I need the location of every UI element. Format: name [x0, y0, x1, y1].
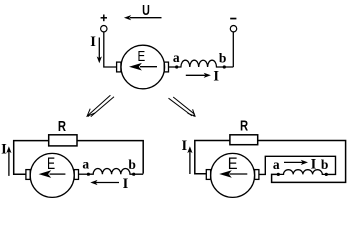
brush left M3 — [206, 170, 210, 180]
brush right M1 — [164, 62, 168, 72]
wire brush to node a — [169, 66, 177, 68]
wire top-right + bottom loop right — [258, 141, 346, 183]
svg-text:U: U — [142, 2, 150, 18]
machine M1 circle — [121, 45, 165, 89]
svg-text:I: I — [213, 69, 219, 85]
inductor L3 — [278, 170, 326, 175]
brush right M3 — [255, 170, 259, 180]
arrow I right under coil — [186, 73, 211, 78]
svg-text:E: E — [138, 47, 146, 64]
wire + to machine — [104, 32, 117, 67]
svg-text:R: R — [240, 117, 248, 134]
svg-text:a: a — [82, 156, 89, 171]
arrow E M2 (points left) — [39, 170, 66, 178]
svg-text:I: I — [181, 138, 187, 154]
arrow I up right circuit — [187, 146, 192, 174]
arrow I down — [97, 38, 102, 64]
node b top — [223, 65, 226, 68]
wire b to terminal - — [232, 32, 234, 67]
arrow E M1 (points left) — [129, 63, 157, 71]
terminal + — [101, 26, 107, 32]
arrow I up left circuit — [6, 146, 11, 176]
node b right — [325, 173, 328, 176]
derive arrow right (double line) — [169, 97, 196, 117]
svg-text:R: R — [58, 117, 66, 134]
svg-text:b: b — [321, 157, 329, 172]
machine M3 circle — [211, 153, 255, 197]
wire brush to node a left — [79, 173, 89, 175]
node b left — [132, 173, 135, 176]
node a right — [277, 173, 280, 176]
inductor L2 — [88, 169, 143, 175]
svg-text:a: a — [273, 157, 280, 172]
label + — [101, 15, 107, 22]
arrow I right above coil — [284, 160, 308, 165]
derive arrow left (double line) — [87, 95, 114, 117]
brush left M1 — [117, 62, 121, 72]
brush right M2 — [74, 170, 78, 180]
svg-text:b: b — [219, 51, 227, 66]
arrow I left under coil — [90, 180, 119, 185]
svg-text:I: I — [90, 34, 96, 50]
wire brush up-over to b right — [259, 156, 336, 174]
svg-text:I: I — [311, 157, 317, 173]
terminal - — [230, 26, 236, 32]
resistor R right box — [230, 135, 258, 145]
svg-text:I: I — [1, 141, 7, 157]
svg-text:b: b — [128, 157, 136, 172]
arrow E M3 (points left) — [219, 170, 247, 178]
node a left — [87, 173, 90, 176]
wire top-left loop right — [195, 141, 230, 174]
wire top-right loop — [77, 141, 143, 174]
svg-text:E: E — [47, 155, 55, 173]
svg-text:I: I — [123, 176, 129, 192]
svg-text:E: E — [228, 155, 238, 173]
node a top — [175, 65, 178, 68]
machine M2 circle — [30, 153, 74, 197]
resistor R left box — [49, 135, 77, 146]
svg-text:a: a — [173, 50, 180, 65]
label - — [230, 18, 236, 20]
arrow U (points left) — [124, 15, 162, 20]
brush left M2 — [26, 170, 30, 180]
inductor L1 — [177, 60, 234, 67]
wire top-left loop — [14, 141, 49, 175]
